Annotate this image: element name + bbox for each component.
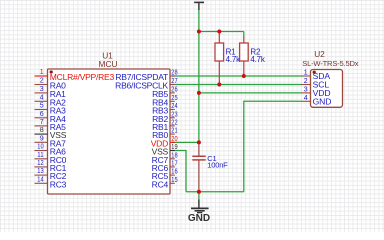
pin 19 (VSS) right stub [170,150,175,152]
svg-text:15: 15 [171,177,177,184]
pin 8 (VSS) left stub [35,133,48,135]
pin 1 (SDA) U2 stub [302,75,311,77]
pin 4 (GND) U2 stub [302,100,311,102]
wire: R2 top bend [243,32,245,38]
junction VDD pin20 / C1 top [197,140,201,144]
pin 12 (RC1) left stub [35,166,48,168]
pin 25 (RB4) right stub [170,100,175,102]
node: U2 pin1 marker dot [313,71,316,74]
svg-text:20: 20 [171,136,177,143]
pin 3 (RA1) left stub [35,92,48,94]
power port VCC [194,2,204,10]
pin 28 (RB7/ICSPDAT) right stub [170,75,175,77]
pin 24 (RB3) right stub [170,109,175,111]
pin 11 (RC0) left stub [35,158,48,160]
wire: SDA net (pin28 to U2 pin1) [172,75,302,77]
svg-text:23: 23 [171,111,177,118]
svg-text:3: 3 [40,86,44,93]
pin 3 (VDD) U2 stub [302,92,311,94]
pin 13 (RC2) left stub [35,174,48,176]
svg-text:GND: GND [313,96,332,106]
wire: VDD net to U2 pin3 [199,92,302,94]
svg-text:10: 10 [37,144,43,151]
pin 4 (RA2) left stub [35,100,48,102]
junction VCC rail / R1 [197,30,201,34]
svg-text:16: 16 [171,169,177,176]
svg-text:22: 22 [171,120,177,127]
svg-text:12: 12 [37,160,43,167]
wire: VCC rail top horizontal [199,31,244,33]
pin 5 (RA3) left stub [35,109,48,111]
node: U1 pin1 marker dot [50,70,53,73]
svg-text:1: 1 [40,69,44,76]
wire: ground rail [186,191,244,193]
svg-text:4: 4 [40,94,44,101]
pin 20 (VDD) right stub [170,141,175,143]
pin 14 (RC3) left stub [35,182,48,184]
svg-text:2: 2 [304,78,308,85]
junction ground rail / C1 bottom [197,190,201,194]
svg-text:GND: GND [188,213,210,224]
resistor R1 [215,32,241,85]
capacitor C1 [192,142,228,191]
svg-text:17: 17 [171,161,177,168]
svg-text:9: 9 [40,135,44,142]
svg-text:7: 7 [40,119,44,126]
pin 6 (RA4) left stub [35,117,48,119]
pin 21 (RB0) right stub [170,133,175,135]
svg-text:5: 5 [40,103,44,110]
wire: VSS pin19 down to ground rail [172,151,186,192]
svg-text:4.7k: 4.7k [226,55,242,64]
svg-text:19: 19 [171,144,177,151]
svg-text:MCU: MCU [99,59,118,69]
pin 17 (RC6) right stub [170,166,175,168]
pin 16 (RC5) right stub [170,174,175,176]
wire: SCL net (pin27 to U2 pin2) [172,84,302,86]
pin 10 (RA6) left stub [35,150,48,152]
svg-text:RC4: RC4 [152,179,169,189]
svg-text:26: 26 [171,87,177,94]
svg-text:11: 11 [37,152,43,159]
svg-text:13: 13 [37,168,43,175]
pin 27 (RB6/ICSPCLK) right stub [170,84,175,86]
svg-text:28: 28 [171,70,177,77]
pin 23 (RB2) right stub [170,117,175,119]
pin 1 (MCLR#/VPP/RE3) left stub [35,75,48,77]
svg-text:8: 8 [40,127,44,134]
svg-text:18: 18 [171,152,177,159]
svg-text:RC3: RC3 [50,179,67,189]
junction R1 bottom on SCL [217,82,221,86]
junction R1 top [217,30,221,34]
pin 9 (RA7) left stub [35,141,48,143]
svg-text:100nF: 100nF [207,161,228,170]
pin 18 (RC7) right stub [170,158,175,160]
svg-text:6: 6 [40,111,44,118]
svg-text:U2: U2 [314,49,325,59]
svg-text:24: 24 [171,103,177,110]
pin 26 (RB5) right stub [170,92,175,94]
wire: GND net to U2 pin4 [244,101,302,191]
svg-text:2: 2 [40,78,44,85]
svg-text:27: 27 [171,78,177,85]
resistor R2 [240,37,266,77]
svg-text:21: 21 [171,128,177,135]
svg-text:4: 4 [304,95,308,102]
svg-text:SL-W-TRS-5.5Dx: SL-W-TRS-5.5Dx [302,59,359,68]
svg-text:3: 3 [304,87,308,94]
wire: GND symbol stub [198,192,200,200]
junction VCC vert on VDD wire [197,91,201,95]
svg-text:4.7k: 4.7k [250,55,266,64]
svg-text:1: 1 [304,70,308,77]
pin 7 (RA5) left stub [35,125,48,127]
wire: VDD pin20 to VCC vertical [172,141,199,143]
wire: VCC vertical [198,10,200,142]
op MCU body U1 [48,69,171,194]
svg-text:14: 14 [37,176,43,183]
pin 22 (RB1) right stub [170,125,175,127]
pin 15 (RC4) right stub [170,182,175,184]
pin 2 (SCL) U2 stub [302,84,311,86]
svg-text:25: 25 [171,95,177,102]
ground symbol [188,199,210,224]
junction R2 bottom on SDA [242,74,246,78]
op U2 body SL-W-TRS-5.5Dx [311,70,343,108]
pin 2 (RA0) left stub [35,84,48,86]
